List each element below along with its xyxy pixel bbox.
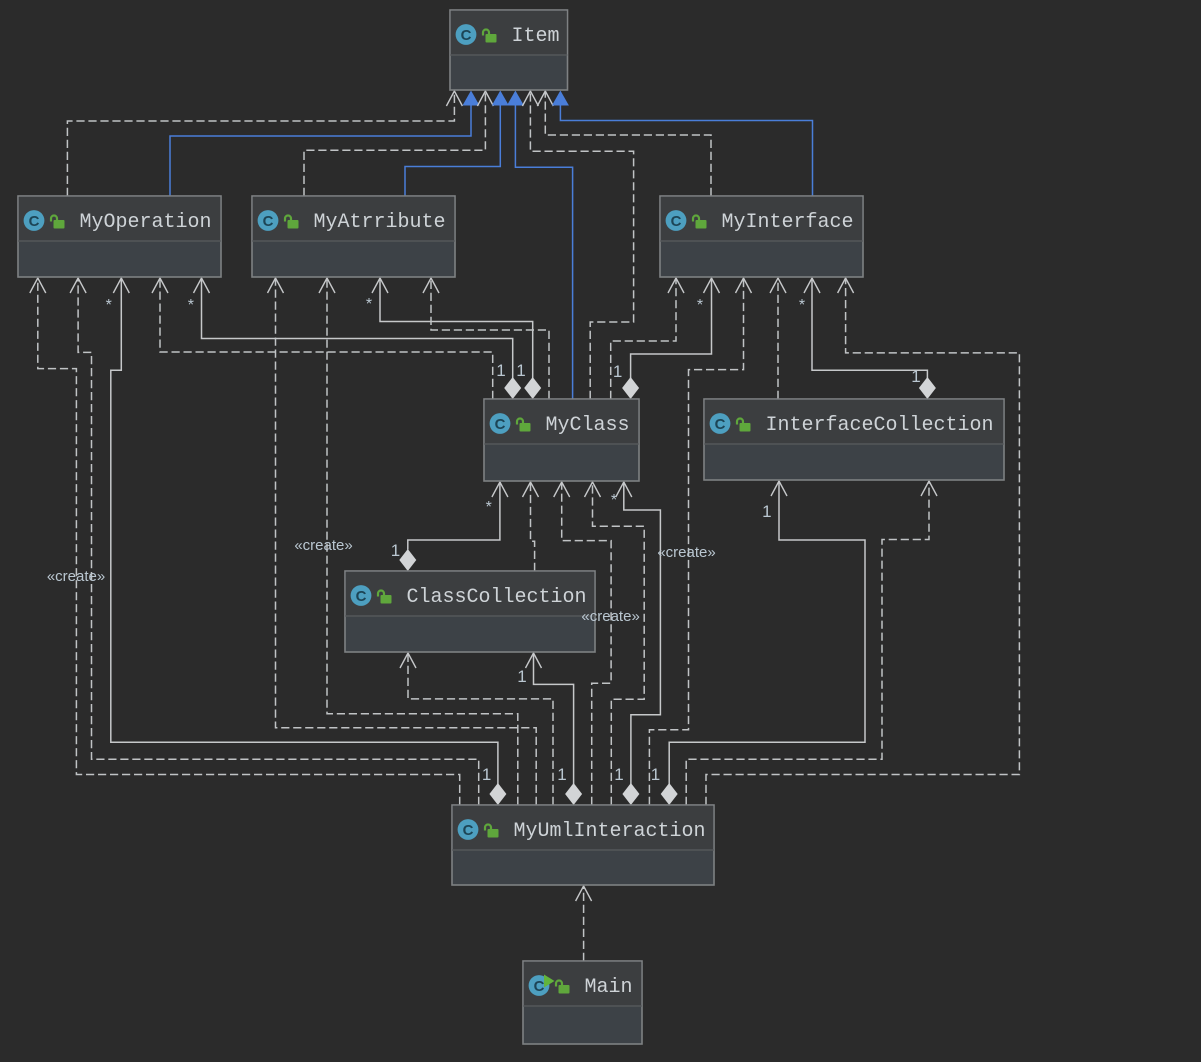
aggregation InterfaceCollection diamond to MyInterface <box>804 278 936 399</box>
dashed dependency MyUmlInteraction to ClassCollection <box>400 653 553 805</box>
svg-text:«create»: «create» <box>581 608 639 625</box>
class box MyUmlInteraction <box>452 805 714 885</box>
dashed create dependency MyUmlInteraction to MyInterface <box>649 278 751 805</box>
svg-text:*: * <box>188 297 194 314</box>
svg-text:«create»: «create» <box>47 568 105 585</box>
class box MyOperation <box>18 196 221 277</box>
svg-text:MyAtrribute: MyAtrribute <box>314 211 446 234</box>
dashed dependency MyClass to MyOperation <box>152 278 493 399</box>
class box Item <box>450 10 568 90</box>
aggregation MyUmlInteraction diamond to MyClass <box>616 482 661 805</box>
svg-text:1: 1 <box>482 765 491 784</box>
svg-text:Main: Main <box>585 976 633 999</box>
blue inheritance edge MyInterface extends Item <box>552 91 813 197</box>
dashed create dependency MyUmlInteraction to MyOperation <box>30 278 460 805</box>
svg-text:1: 1 <box>762 502 771 521</box>
svg-text:C: C <box>534 978 545 995</box>
svg-text:ClassCollection: ClassCollection <box>407 586 587 609</box>
dashed create dependency MyUmlInteraction to MyClass <box>554 482 611 805</box>
svg-text:1: 1 <box>516 361 525 380</box>
svg-text:InterfaceCollection: InterfaceCollection <box>766 414 994 437</box>
svg-text:MyClass: MyClass <box>546 414 630 437</box>
dashed dependency edge MyAtrribute to Item <box>304 91 493 196</box>
svg-text:1: 1 <box>517 667 526 686</box>
svg-text:C: C <box>495 416 506 433</box>
svg-text:C: C <box>356 588 367 605</box>
dashed dependency MyUmlInteraction to InterfaceCollection <box>686 481 937 805</box>
blue inheritance edge MyAtrribute extends Item <box>405 91 509 197</box>
aggregation ClassCollection diamond to MyClass <box>399 482 508 571</box>
dashed dependency MyUmlInteraction to MyOperation <box>70 278 479 805</box>
svg-text:C: C <box>263 213 274 230</box>
blue inheritance edge MyOperation extends Item <box>170 91 480 197</box>
dashed dependency Main to MyUmlInteraction <box>576 886 592 961</box>
aggregation MyUmlInteraction diamond to InterfaceCollection <box>661 481 865 805</box>
aggregation MyClass diamond to MyInterface <box>622 278 719 399</box>
dashed dependency MyClass to MyInterface <box>611 278 684 399</box>
dashed dependency MyUmlInteraction to MyInterface right loop <box>706 278 1019 805</box>
svg-text:1: 1 <box>614 765 623 784</box>
class box Main <box>523 961 642 1044</box>
svg-text:*: * <box>799 297 805 314</box>
svg-text:C: C <box>715 416 726 433</box>
class box ClassCollection <box>345 571 595 652</box>
svg-text:C: C <box>461 27 472 44</box>
svg-text:1: 1 <box>911 367 920 386</box>
svg-text:*: * <box>106 297 112 314</box>
svg-text:Item: Item <box>512 25 560 48</box>
svg-text:MyInterface: MyInterface <box>722 211 854 234</box>
svg-text:C: C <box>671 213 682 230</box>
svg-text:*: * <box>611 492 617 509</box>
svg-text:1: 1 <box>391 541 400 560</box>
class box InterfaceCollection <box>704 399 1004 480</box>
dashed dependency edge MyInterface to Item <box>537 91 711 196</box>
svg-text:*: * <box>486 499 492 516</box>
dashed dependency MyClass to MyAtrribute <box>423 278 549 399</box>
svg-text:1: 1 <box>613 362 622 381</box>
blue inheritance edge MyClass extends Item <box>507 91 573 400</box>
dashed dependency edge MyClass to Item <box>522 91 633 399</box>
svg-text:1: 1 <box>651 765 660 784</box>
svg-text:C: C <box>29 213 40 230</box>
dashed create dependency MyUmlInteraction to MyAtrribute <box>319 278 518 805</box>
dashed dependency edge MyOperation to Item <box>67 91 462 196</box>
aggregation MyClass diamond to MyAtrribute <box>372 278 541 399</box>
svg-text:1: 1 <box>496 361 505 380</box>
svg-text:MyOperation: MyOperation <box>80 211 212 234</box>
class box MyInterface <box>660 196 863 277</box>
svg-text:*: * <box>697 297 703 314</box>
svg-text:*: * <box>366 296 372 313</box>
aggregation MyUmlInteraction diamond to MyOperation <box>111 278 507 805</box>
dashed dependency InterfaceCollection to MyInterface <box>770 278 786 399</box>
dashed dependency MyUmlInteraction to MyAtrribute <box>268 278 537 805</box>
class box MyClass <box>484 399 639 481</box>
svg-text:«create»: «create» <box>657 544 715 561</box>
svg-text:C: C <box>463 822 474 839</box>
dashed dependency MyUmlInteraction to MyClass <box>585 482 645 805</box>
aggregation MyClass diamond to MyOperation <box>194 278 522 399</box>
svg-text:«create»: «create» <box>294 537 352 554</box>
aggregation MyUmlInteraction diamond to ClassCollection <box>526 653 583 805</box>
svg-text:MyUmlInteraction: MyUmlInteraction <box>514 820 706 843</box>
class box MyAtrribute <box>252 196 455 277</box>
dashed dependency ClassCollection to MyClass <box>523 482 539 571</box>
svg-text:1: 1 <box>557 765 566 784</box>
